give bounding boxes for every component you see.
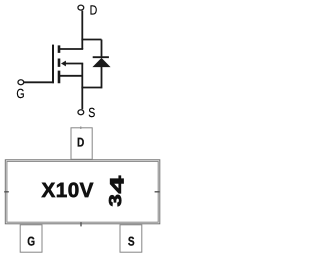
svg-text:S: S — [88, 105, 95, 120]
svg-text:3: 3 — [105, 194, 125, 206]
svg-text:G: G — [16, 86, 24, 101]
svg-text:D: D — [77, 135, 84, 149]
svg-text:4: 4 — [108, 175, 129, 193]
svg-text:D: D — [90, 3, 98, 18]
svg-text:S: S — [128, 234, 135, 248]
svg-text:G: G — [27, 234, 35, 248]
svg-text:X10V: X10V — [42, 179, 94, 202]
